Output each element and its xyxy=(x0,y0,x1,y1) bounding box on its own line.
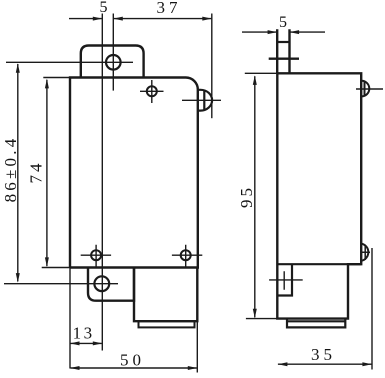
37 right extension line xyxy=(211,14,213,119)
plunger collar xyxy=(269,58,299,60)
dim 5 front: line left part xyxy=(69,18,102,20)
arrow 13 right xyxy=(93,341,103,345)
lower-left small hole crosshair xyxy=(81,245,111,268)
dim 35 line xyxy=(278,363,372,365)
svg-text:37: 37 xyxy=(157,0,182,17)
svg-text:95: 95 xyxy=(237,185,256,208)
arrow 5-side left pointing right at 277 xyxy=(268,30,278,34)
side view body outline xyxy=(277,73,361,318)
side view lower-right screw bump xyxy=(361,244,368,261)
arrow 95 top xyxy=(253,75,257,85)
dim 5 side: right part xyxy=(290,31,325,33)
lower-right small hole xyxy=(181,250,191,260)
95 bottom extension xyxy=(246,318,277,320)
35 right extension xyxy=(371,248,373,370)
long centerline x=102 (5 and 13 extension) xyxy=(101,14,103,351)
74 top extension xyxy=(43,77,70,79)
bottom tab hole xyxy=(94,276,109,291)
arrow 35 right xyxy=(362,362,372,366)
svg-text:86±0.4: 86±0.4 xyxy=(1,136,20,203)
top tab hole xyxy=(106,55,121,70)
arrow 35 left xyxy=(278,362,288,366)
arrow 37 right pointing right at x=211.8 xyxy=(202,17,212,21)
front view top mounting tab xyxy=(81,46,144,78)
screw bump cross xyxy=(361,245,371,261)
dim 74 line xyxy=(46,80,48,266)
dim 86 line xyxy=(17,64,19,281)
arrow 74 top xyxy=(45,79,49,89)
top tab hole vertical centerline / 5 extension line xyxy=(112,14,114,91)
arrow 50 left xyxy=(70,366,80,370)
front view body outline xyxy=(70,78,198,268)
left edge extension down xyxy=(69,268,71,369)
side view bottom tab edge-on notch xyxy=(277,264,292,295)
plunger (top pin) xyxy=(277,29,289,73)
arrow 86 bottom xyxy=(16,273,20,283)
lower-left small hole xyxy=(91,250,101,260)
arrow 37 left pointing left at x=113.3 xyxy=(113,17,123,21)
top bump centerline xyxy=(356,88,383,90)
side view bottom block xyxy=(287,319,345,328)
dim 5 side: left part xyxy=(242,31,277,33)
dim 37 line xyxy=(114,18,212,20)
arrow 5-side right pointing left at 289.6 xyxy=(290,30,300,34)
front view side bump (plunger boss) xyxy=(198,90,213,111)
bump horizontal centerline xyxy=(182,99,221,101)
svg-text:35: 35 xyxy=(311,345,336,364)
plunger cap line xyxy=(277,41,289,43)
bottom tab hole horizontal centerline xyxy=(4,283,118,285)
notch hole center mark xyxy=(269,271,303,290)
svg-text:13: 13 xyxy=(73,324,95,343)
50 right extension xyxy=(196,321,198,372)
side view parting line xyxy=(277,263,361,265)
arrow 50 right xyxy=(188,366,198,370)
lower-right small hole crosshair xyxy=(172,245,202,268)
arrow 13 left xyxy=(70,341,80,345)
svg-text:5: 5 xyxy=(100,0,108,16)
arrow 86 top xyxy=(16,63,20,72)
bottom step block xyxy=(134,268,197,322)
dim 50 line xyxy=(71,367,197,369)
95 top extension xyxy=(245,72,277,74)
arrow 74 bottom xyxy=(45,257,49,267)
svg-text:5: 5 xyxy=(279,14,287,31)
upper-right small hole xyxy=(147,86,157,96)
side view top-right bump xyxy=(362,81,370,97)
dim 95 line xyxy=(254,76,256,317)
svg-text:74: 74 xyxy=(27,161,46,184)
arrow 95 bottom xyxy=(253,309,257,319)
svg-text:50: 50 xyxy=(120,351,145,370)
upper-right small hole crosshair xyxy=(140,80,164,103)
top tab hole horizontal centerline xyxy=(6,61,133,63)
74 bottom extension xyxy=(42,267,70,269)
arrow 5-left pointing right at x=102 xyxy=(93,17,103,21)
bottom thin plate xyxy=(139,321,195,327)
dim 13 line xyxy=(71,342,102,344)
bottom mounting tab xyxy=(88,268,134,301)
